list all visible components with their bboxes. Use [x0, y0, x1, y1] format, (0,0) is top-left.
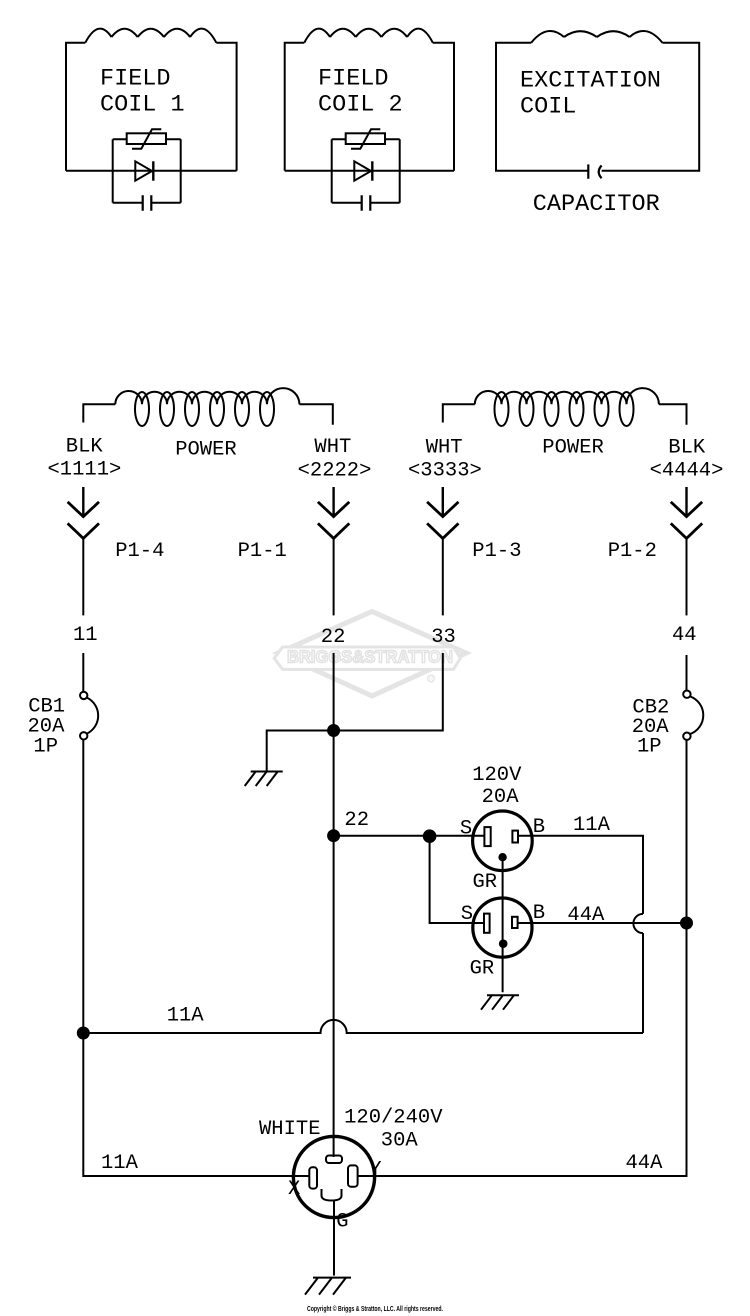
- svg-text:GR: GR: [470, 957, 495, 980]
- svg-text:GR: GR: [473, 871, 498, 894]
- receptacle R2 (120V duplex bottom): [473, 898, 532, 957]
- svg-text:11A: 11A: [167, 1005, 205, 1028]
- svg-text:CAPACITOR: CAPACITOR: [533, 191, 660, 218]
- svg-text:POWER: POWER: [542, 437, 604, 460]
- capacitor C2: [332, 202, 400, 204]
- wire: node 22 to receptacle 1: [334, 835, 485, 837]
- excitation coil box: [496, 43, 699, 171]
- capacitor C3: [587, 164, 589, 178]
- excitation coil winding: [531, 31, 662, 43]
- svg-text:120/240V: 120/240V: [344, 1106, 443, 1129]
- svg-text:COIL 2: COIL 2: [318, 91, 403, 118]
- svg-text:11A: 11A: [101, 1152, 139, 1175]
- svg-text:EXCITATION: EXCITATION: [520, 68, 661, 95]
- wire: R1 hot to the right, down: [518, 836, 643, 914]
- junction at node 22: [327, 829, 340, 842]
- svg-text:<2222>: <2222>: [298, 459, 372, 482]
- connector P1-2 plug/receptacle symbols: [685, 487, 687, 517]
- wire: power winding 2 leads: [443, 404, 687, 425]
- wire: R2 hot to 44 line: [518, 922, 687, 924]
- svg-text:BLK: BLK: [66, 436, 104, 459]
- svg-text:FIELD: FIELD: [318, 65, 389, 92]
- field coil 2 box: [285, 43, 454, 171]
- R3 ground slot (bottom): [322, 1189, 342, 1201]
- svg-text:Copyright © Briggs & Stratton,: Copyright © Briggs & Stratton, LLC. All …: [307, 1305, 443, 1313]
- connector P1-1 plug/receptacle symbols: [332, 487, 334, 517]
- R3 neutral slot (top): [326, 1156, 342, 1164]
- junction branch to receptacle 2: [423, 829, 437, 843]
- R3 X slot (left): [309, 1167, 317, 1188]
- svg-text:P1-4: P1-4: [115, 540, 164, 563]
- svg-text:11A: 11A: [573, 814, 611, 837]
- svg-text:1P: 1P: [33, 736, 58, 759]
- varistor MOV1: [127, 133, 166, 144]
- wire: lead 44 to CB2: [686, 655, 688, 691]
- wire: lead 22 down: [333, 653, 335, 1157]
- capacitor C1: [113, 202, 181, 204]
- svg-text:S: S: [461, 903, 473, 926]
- junction 44A on CB2 line: [680, 917, 693, 930]
- receptacle R3 (120/240V 30A locking): [293, 1136, 374, 1217]
- ground (main bond): [305, 1278, 351, 1295]
- stator power winding 1: [115, 388, 299, 404]
- junction node 22/33: [327, 724, 340, 737]
- svg-text:P1-3: P1-3: [472, 540, 521, 563]
- svg-text:Y: Y: [369, 1159, 381, 1182]
- svg-text:<3333>: <3333>: [408, 459, 482, 482]
- junction 11A on CB1 line: [77, 1027, 90, 1040]
- circuit breaker CB2: [683, 691, 690, 698]
- svg-text:22: 22: [344, 809, 369, 832]
- svg-text:1P: 1P: [637, 736, 662, 759]
- svg-text:BRIGGS&STRATTON: BRIGGS&STRATTON: [287, 647, 453, 667]
- wire: lead 33 down and over to node: [267, 653, 443, 772]
- wire: power winding 1 leads: [83, 404, 332, 425]
- svg-text:<4444>: <4444>: [650, 459, 724, 482]
- wire hop over 44A line: [633, 914, 643, 933]
- svg-text:X: X: [288, 1178, 300, 1201]
- diode D2: [354, 161, 371, 180]
- R3 Y slot (right): [348, 1165, 358, 1186]
- svg-text:COIL 1: COIL 1: [100, 91, 185, 118]
- ground (receptacle R2): [481, 995, 519, 1010]
- svg-text:FIELD: FIELD: [100, 65, 171, 92]
- svg-text:WHT: WHT: [426, 437, 463, 460]
- svg-text:33: 33: [431, 626, 456, 649]
- wire: R1 ground chain down through R2: [502, 857, 504, 992]
- connector P1-3 plug/receptacle symbols: [442, 487, 444, 517]
- svg-text:120V: 120V: [472, 764, 522, 787]
- svg-text:20A: 20A: [482, 786, 520, 809]
- svg-text:WHITE: WHITE: [259, 1118, 321, 1141]
- wire: branch down to receptacle 2: [430, 836, 484, 923]
- circuit breaker CB1: [80, 692, 87, 699]
- svg-text:22: 22: [321, 626, 346, 649]
- connector P1-4 plug/receptacle symbols: [82, 487, 84, 517]
- svg-text:POWER: POWER: [175, 439, 237, 462]
- Briggs & Stratton watermark: [278, 612, 466, 697]
- suppressor sub-box of field coil 2: [332, 139, 400, 202]
- svg-text:44: 44: [672, 624, 697, 647]
- svg-text:B: B: [533, 902, 545, 925]
- varistor MOV2: [346, 133, 385, 144]
- svg-text:COIL: COIL: [520, 93, 576, 120]
- wire: R3 ground down: [333, 1201, 335, 1276]
- wire: lead 11 to CB1: [82, 653, 84, 692]
- diode D1: [135, 161, 152, 180]
- field coil 2 winding: [304, 29, 433, 43]
- svg-text:P1-2: P1-2: [608, 540, 657, 563]
- stator power winding 2: [475, 388, 659, 404]
- svg-text:R: R: [429, 677, 434, 683]
- svg-text:44A: 44A: [626, 1152, 664, 1175]
- svg-text:<1111>: <1111>: [48, 458, 122, 481]
- wire: 11A cross tie with hop over 22 line: [83, 1020, 643, 1033]
- receptacle R1 (120V duplex top): [473, 811, 533, 871]
- wire: CB1 down the left side: [83, 740, 309, 1177]
- wire: CB2 down the right side: [358, 740, 687, 1176]
- svg-text:11: 11: [73, 624, 98, 647]
- field coil 1 box: [66, 43, 237, 171]
- field coil 1 winding: [85, 29, 216, 43]
- wire: field coil 1 bottom rail: [66, 170, 237, 172]
- ground (field neutral): [245, 772, 283, 787]
- svg-text:BLK: BLK: [668, 437, 706, 460]
- svg-text:30A: 30A: [381, 1130, 419, 1153]
- svg-text:G: G: [336, 1211, 348, 1234]
- suppressor sub-box of field coil 1: [113, 139, 181, 202]
- svg-text:P1-1: P1-1: [238, 540, 287, 563]
- svg-text:S: S: [460, 818, 472, 841]
- svg-text:WHT: WHT: [314, 436, 351, 459]
- wire: field coil 2 bottom rail: [285, 170, 454, 172]
